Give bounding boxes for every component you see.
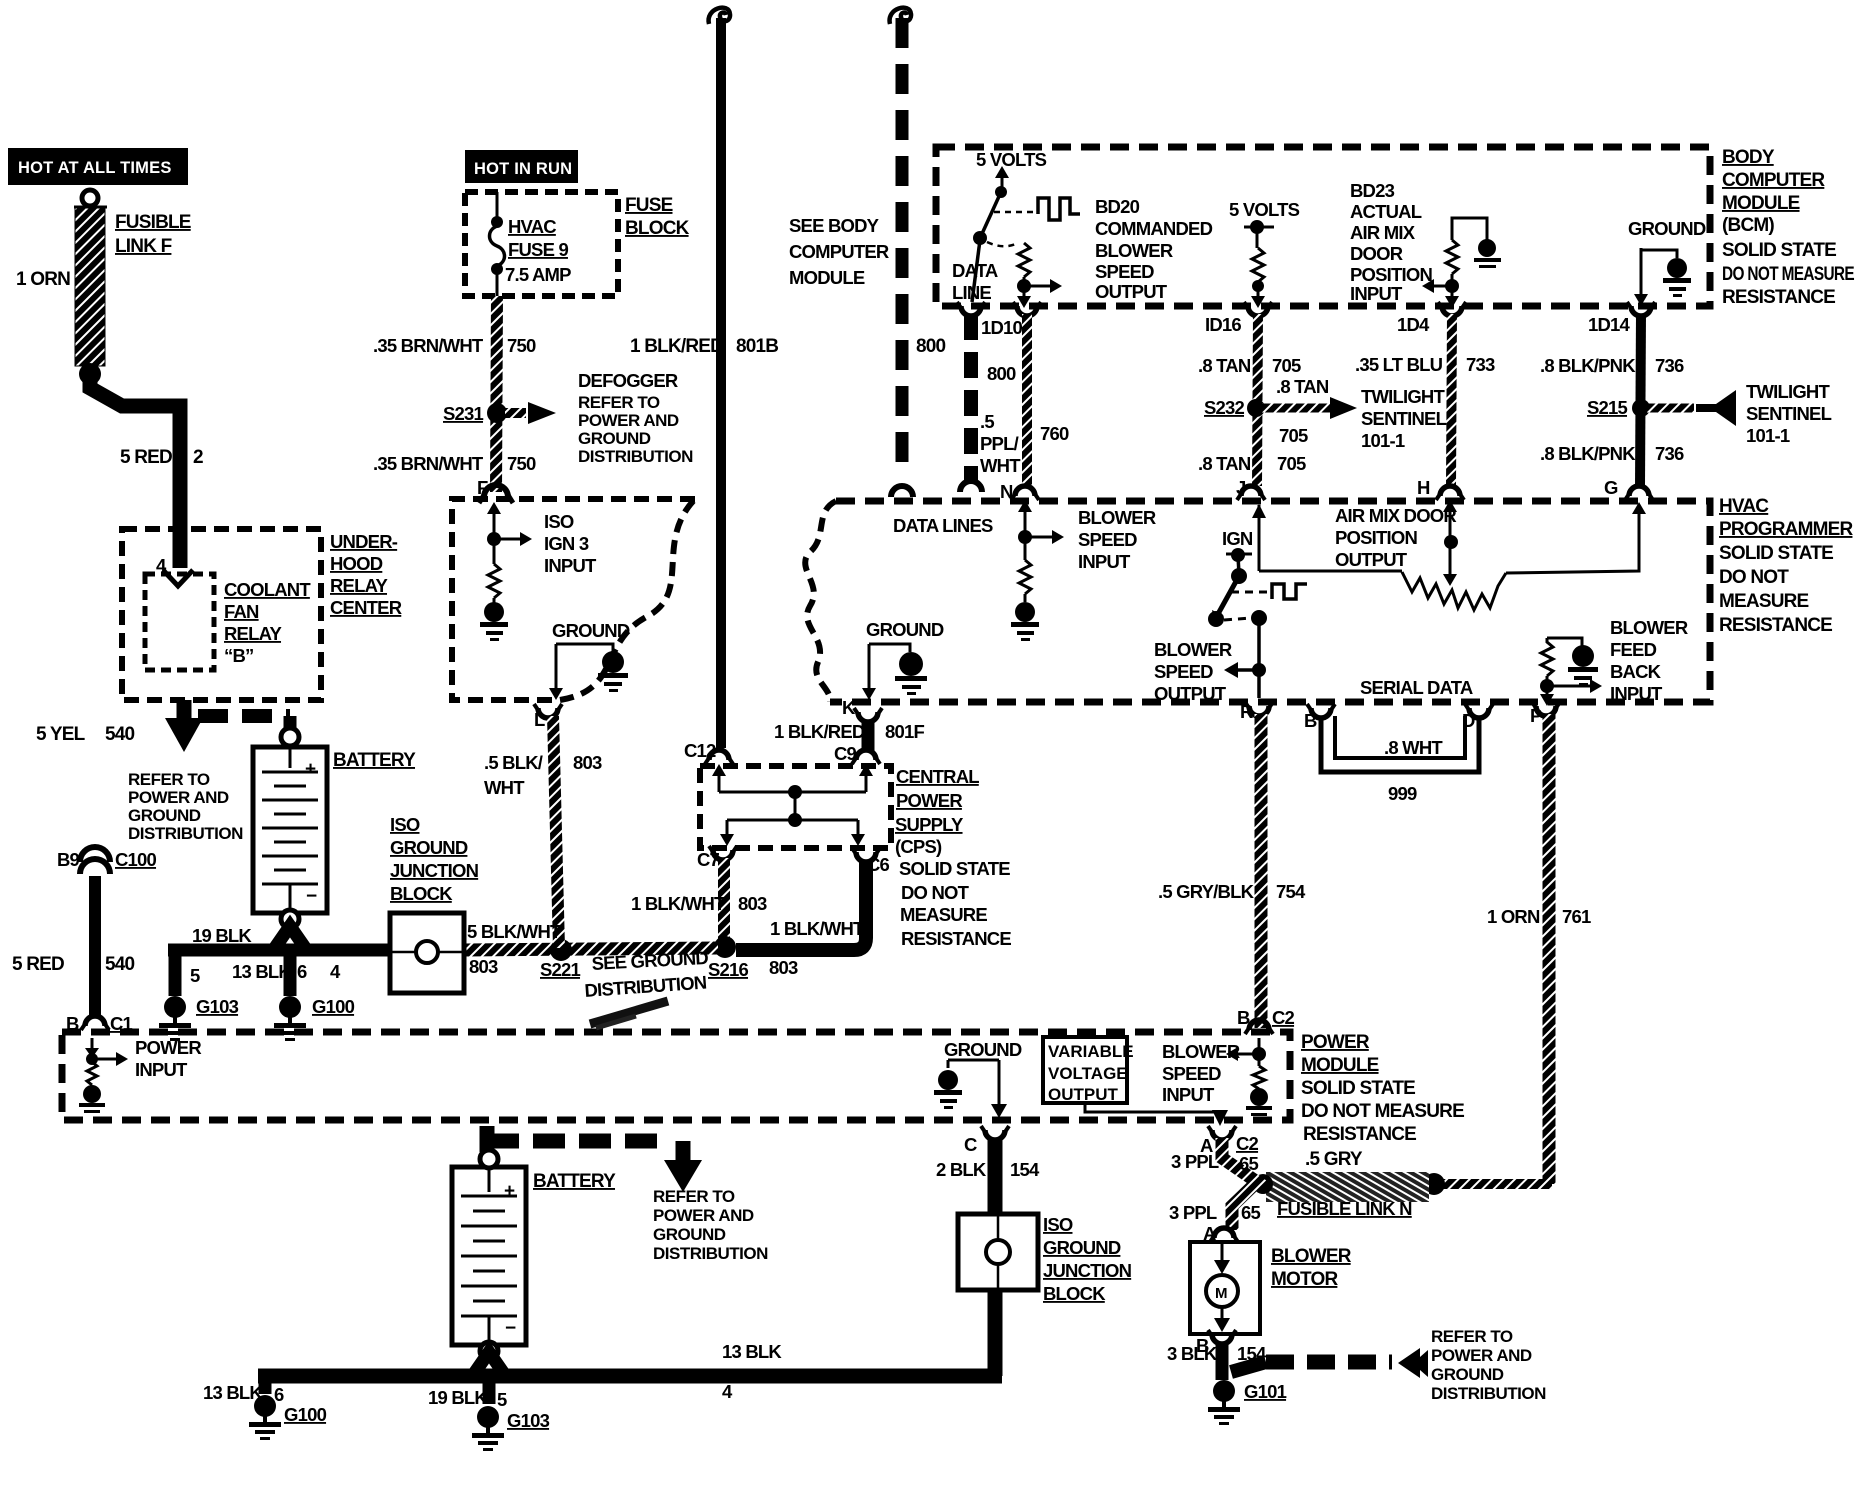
svg-text:705: 705 — [1272, 355, 1301, 376]
svg-text:.8 TAN: .8 TAN — [1198, 355, 1251, 376]
svg-text:RESISTANCE: RESISTANCE — [1722, 287, 1835, 308]
svg-text:RESISTANCE: RESISTANCE — [1303, 1124, 1416, 1145]
svg-text:POSITION: POSITION — [1350, 264, 1432, 285]
svg-text:POWER: POWER — [1301, 1032, 1370, 1053]
svg-text:HOT AT ALL TIMES: HOT AT ALL TIMES — [18, 159, 172, 177]
svg-text:4: 4 — [722, 1381, 733, 1402]
svg-text:BATTERY: BATTERY — [533, 1171, 616, 1192]
svg-text:WHT: WHT — [484, 777, 525, 798]
svg-text:13 BLK: 13 BLK — [232, 961, 292, 982]
svg-text:7.5 AMP: 7.5 AMP — [505, 264, 571, 285]
svg-text:803: 803 — [738, 893, 767, 914]
svg-text:OUTPUT: OUTPUT — [1154, 683, 1227, 704]
svg-text:VOLTAGE: VOLTAGE — [1048, 1064, 1128, 1083]
svg-text:.5 GRY: .5 GRY — [1305, 1149, 1363, 1170]
svg-text:G: G — [1604, 477, 1618, 498]
svg-text:BLOWER: BLOWER — [1610, 617, 1688, 638]
svg-text:INPUT: INPUT — [1350, 283, 1403, 304]
svg-text:AIR MIX DOOR: AIR MIX DOOR — [1335, 505, 1456, 526]
svg-text:BODY: BODY — [1722, 147, 1775, 168]
svg-text:OUTPUT: OUTPUT — [1095, 281, 1168, 302]
svg-text:HVAC: HVAC — [508, 216, 556, 237]
svg-text:R: R — [1240, 701, 1253, 722]
svg-text:760: 760 — [1040, 423, 1069, 444]
svg-text:B: B — [1237, 1007, 1250, 1028]
svg-text:G103: G103 — [507, 1410, 550, 1431]
svg-text:CENTER: CENTER — [330, 597, 402, 618]
svg-text:S215: S215 — [1587, 397, 1628, 418]
svg-text:750: 750 — [507, 453, 536, 474]
svg-text:19 BLK: 19 BLK — [192, 925, 252, 946]
svg-text:SERIAL DATA: SERIAL DATA — [1360, 677, 1473, 698]
svg-text:REFER TO: REFER TO — [1431, 1327, 1513, 1346]
svg-text:540: 540 — [105, 724, 135, 745]
svg-text:6: 6 — [297, 961, 307, 982]
svg-text:P: P — [1530, 705, 1542, 726]
svg-text:“B”: “B” — [224, 645, 253, 666]
svg-text:13 BLK: 13 BLK — [203, 1382, 263, 1403]
svg-text:4: 4 — [330, 961, 341, 982]
svg-text:OUTPUT: OUTPUT — [1335, 549, 1408, 570]
svg-text:INPUT: INPUT — [135, 1059, 188, 1080]
svg-text:101-1: 101-1 — [1746, 425, 1790, 446]
svg-text:DISTRIBUTION: DISTRIBUTION — [578, 447, 693, 466]
svg-text:SENTINEL: SENTINEL — [1746, 403, 1832, 424]
svg-text:999: 999 — [1388, 783, 1417, 804]
svg-text:BATTERY: BATTERY — [333, 750, 416, 771]
svg-text:OUTPUT: OUTPUT — [1048, 1085, 1119, 1104]
svg-text:5: 5 — [190, 965, 200, 986]
svg-text:BLOWER: BLOWER — [1162, 1041, 1240, 1062]
svg-text:SEE BODY: SEE BODY — [789, 215, 880, 236]
svg-text:H: H — [1417, 477, 1430, 498]
svg-text:JUNCTION: JUNCTION — [390, 860, 479, 881]
svg-text:BACK: BACK — [1610, 661, 1662, 682]
svg-text:ID16: ID16 — [1205, 314, 1241, 335]
svg-text:3 PPL: 3 PPL — [1169, 1202, 1217, 1223]
svg-text:G100: G100 — [312, 996, 355, 1017]
svg-text:REFER TO: REFER TO — [128, 770, 210, 789]
svg-text:POWER AND: POWER AND — [1431, 1346, 1532, 1365]
svg-text:801F: 801F — [885, 721, 924, 742]
svg-text:1 ORN: 1 ORN — [1487, 906, 1540, 927]
svg-text:HVAC: HVAC — [1719, 496, 1769, 517]
svg-text:S216: S216 — [708, 959, 749, 980]
svg-text:761: 761 — [1562, 906, 1591, 927]
svg-text:S221: S221 — [540, 959, 581, 980]
svg-text:MODULE: MODULE — [1301, 1055, 1379, 1076]
svg-text:DISTRIBUTION: DISTRIBUTION — [653, 1244, 768, 1263]
svg-text:FUSIBLE LINK N: FUSIBLE LINK N — [1277, 1198, 1412, 1219]
svg-text:3 PPL: 3 PPL — [1171, 1151, 1219, 1172]
svg-text:1D4: 1D4 — [1397, 314, 1430, 335]
svg-text:.35 BRN/WHT: .35 BRN/WHT — [373, 335, 484, 356]
svg-text:C1: C1 — [110, 1013, 133, 1034]
svg-text:TWILIGHT: TWILIGHT — [1746, 381, 1830, 402]
svg-text:C12: C12 — [684, 740, 716, 761]
svg-text:PPL/: PPL/ — [980, 433, 1019, 454]
svg-text:1 BLK/RED: 1 BLK/RED — [630, 336, 723, 357]
svg-text:705: 705 — [1279, 425, 1308, 446]
svg-text:800: 800 — [987, 363, 1016, 384]
svg-text:POWER AND: POWER AND — [128, 788, 229, 807]
svg-text:DO NOT: DO NOT — [1719, 567, 1789, 588]
svg-text:C: C — [964, 1134, 977, 1155]
svg-text:.8 BLK/PNK: .8 BLK/PNK — [1540, 355, 1636, 376]
svg-text:DISTRIBUTION: DISTRIBUTION — [128, 824, 243, 843]
svg-text:803: 803 — [769, 957, 798, 978]
svg-text:SOLID STATE: SOLID STATE — [1722, 240, 1836, 261]
svg-text:.5 BLK/: .5 BLK/ — [484, 752, 543, 773]
svg-text:.8 TAN: .8 TAN — [1276, 376, 1329, 397]
svg-text:DATA LINES: DATA LINES — [893, 515, 993, 536]
svg-text:RESISTANCE: RESISTANCE — [901, 928, 1011, 949]
svg-text:65: 65 — [1241, 1202, 1260, 1223]
svg-text:1 ORN: 1 ORN — [16, 269, 70, 290]
svg-text:K: K — [842, 697, 856, 718]
svg-text:SPEED: SPEED — [1078, 529, 1137, 550]
svg-text:SOLID STATE: SOLID STATE — [899, 858, 1010, 879]
svg-text:A: A — [1203, 1223, 1216, 1244]
svg-text:COMPUTER: COMPUTER — [1722, 170, 1825, 191]
svg-text:BD20: BD20 — [1095, 196, 1140, 217]
svg-text:SENTINEL: SENTINEL — [1361, 408, 1447, 429]
svg-text:800: 800 — [916, 336, 946, 357]
svg-text:FUSE: FUSE — [625, 195, 673, 216]
svg-text:AIR MIX: AIR MIX — [1350, 222, 1416, 243]
svg-text:19 BLK: 19 BLK — [428, 1387, 488, 1408]
svg-text:RELAY: RELAY — [224, 623, 282, 644]
svg-text:CENTRAL: CENTRAL — [896, 766, 979, 787]
svg-text:BLOCK: BLOCK — [1043, 1283, 1106, 1304]
svg-text:803: 803 — [573, 752, 602, 773]
svg-text:INPUT: INPUT — [1078, 551, 1131, 572]
svg-text:+: + — [504, 1181, 515, 1202]
svg-text:GROUND: GROUND — [1431, 1365, 1504, 1384]
svg-text:BLOWER: BLOWER — [1154, 639, 1232, 660]
svg-text:INPUT: INPUT — [1162, 1084, 1215, 1105]
svg-text:GROUND: GROUND — [578, 429, 651, 448]
svg-text:FAN: FAN — [224, 601, 259, 622]
svg-text:F: F — [477, 477, 488, 498]
svg-text:COOLANT: COOLANT — [224, 579, 311, 600]
svg-text:BD23: BD23 — [1350, 180, 1395, 201]
svg-text:3 BLK: 3 BLK — [1167, 1343, 1218, 1364]
svg-text:MEASURE: MEASURE — [900, 904, 987, 925]
svg-text:POWER AND: POWER AND — [653, 1206, 754, 1225]
svg-text:−: − — [306, 886, 317, 907]
svg-text:C2: C2 — [1236, 1133, 1259, 1154]
svg-text:N: N — [1000, 481, 1013, 502]
svg-text:801B: 801B — [736, 336, 778, 357]
svg-text:1 BLK/RED: 1 BLK/RED — [774, 721, 865, 742]
svg-text:DO NOT MEASURE: DO NOT MEASURE — [1301, 1101, 1464, 1122]
svg-text:65: 65 — [1239, 1153, 1258, 1174]
svg-text:13 BLK: 13 BLK — [722, 1341, 782, 1362]
svg-text:WHT: WHT — [980, 455, 1021, 476]
svg-text:GROUND: GROUND — [944, 1039, 1022, 1060]
svg-text:G101: G101 — [1244, 1381, 1287, 1402]
svg-text:DO NOT MEASURE: DO NOT MEASURE — [1722, 264, 1854, 285]
svg-text:RESISTANCE: RESISTANCE — [1719, 615, 1832, 636]
svg-text:5 YEL: 5 YEL — [36, 724, 86, 745]
svg-text:6: 6 — [274, 1384, 284, 1405]
svg-text:.5 GRY/BLK: .5 GRY/BLK — [1158, 881, 1255, 902]
svg-text:BLOWER: BLOWER — [1271, 1246, 1352, 1267]
svg-text:C100: C100 — [115, 849, 157, 870]
svg-text:(BCM): (BCM) — [1722, 215, 1774, 236]
svg-text:UNDER-: UNDER- — [330, 531, 398, 552]
svg-text:DISTRIBUTION: DISTRIBUTION — [1431, 1384, 1546, 1403]
svg-text:B9: B9 — [57, 849, 80, 870]
svg-text:1D14: 1D14 — [1588, 314, 1631, 335]
svg-text:POWER AND: POWER AND — [578, 411, 679, 430]
svg-text:SOLID STATE: SOLID STATE — [1719, 543, 1833, 564]
svg-text:SPEED: SPEED — [1095, 261, 1154, 282]
svg-text:INPUT: INPUT — [1610, 683, 1663, 704]
svg-text:.5: .5 — [980, 411, 994, 432]
svg-text:B: B — [1304, 710, 1317, 731]
svg-text:803: 803 — [469, 956, 498, 977]
svg-text:D: D — [1462, 710, 1475, 731]
svg-text:S231: S231 — [443, 403, 484, 424]
svg-text:REFER TO: REFER TO — [578, 393, 660, 412]
svg-text:COMMANDED: COMMANDED — [1095, 218, 1213, 239]
svg-text:INPUT: INPUT — [544, 555, 597, 576]
svg-text:JUNCTION: JUNCTION — [1043, 1260, 1132, 1281]
svg-text:705: 705 — [1277, 453, 1306, 474]
svg-text:736: 736 — [1655, 355, 1684, 376]
svg-text:C7: C7 — [697, 849, 720, 870]
svg-text:J: J — [1236, 477, 1246, 498]
svg-text:1D10: 1D10 — [981, 317, 1023, 338]
svg-text:G100: G100 — [284, 1404, 327, 1425]
svg-text:BLOWER: BLOWER — [1095, 240, 1173, 261]
svg-text:ACTUAL: ACTUAL — [1350, 201, 1422, 222]
svg-text:.8 BLK/PNK: .8 BLK/PNK — [1540, 443, 1636, 464]
svg-text:C6: C6 — [867, 854, 890, 875]
svg-text:DO NOT: DO NOT — [901, 882, 970, 903]
svg-text:MEASURE: MEASURE — [1719, 591, 1809, 612]
svg-text:TWILIGHT: TWILIGHT — [1361, 386, 1445, 407]
svg-text:ISO: ISO — [544, 511, 574, 532]
svg-text:733: 733 — [1466, 354, 1495, 375]
svg-text:+: + — [305, 759, 316, 780]
svg-text:HOT IN RUN: HOT IN RUN — [474, 160, 572, 178]
svg-text:.8 TAN: .8 TAN — [1198, 453, 1251, 474]
svg-text:GROUND: GROUND — [390, 837, 468, 858]
svg-text:101-1: 101-1 — [1361, 430, 1405, 451]
svg-text:GROUND: GROUND — [128, 806, 201, 825]
svg-text:154: 154 — [1237, 1343, 1267, 1364]
svg-text:S232: S232 — [1204, 397, 1245, 418]
svg-text:5 RED: 5 RED — [12, 954, 64, 975]
svg-text:5 VOLTS: 5 VOLTS — [976, 149, 1047, 170]
svg-text:B: B — [66, 1013, 79, 1034]
svg-text:750: 750 — [507, 335, 536, 356]
svg-text:GROUND: GROUND — [653, 1225, 726, 1244]
svg-text:SOLID STATE: SOLID STATE — [1301, 1078, 1415, 1099]
svg-text:M: M — [1215, 1285, 1228, 1302]
svg-text:POWER: POWER — [135, 1037, 201, 1058]
svg-text:GROUND: GROUND — [866, 619, 944, 640]
svg-text:DOOR: DOOR — [1350, 243, 1403, 264]
svg-text:154: 154 — [1010, 1159, 1040, 1180]
svg-text:GROUND: GROUND — [1043, 1237, 1121, 1258]
svg-text:SUPPLY: SUPPLY — [895, 814, 964, 835]
svg-text:−: − — [505, 1318, 516, 1339]
svg-text:L: L — [534, 709, 545, 730]
svg-text:DATA: DATA — [952, 260, 998, 281]
svg-text:HOOD: HOOD — [330, 553, 383, 574]
svg-text:540: 540 — [105, 954, 135, 975]
svg-text:REFER TO: REFER TO — [653, 1187, 735, 1206]
svg-text:BLOCK: BLOCK — [625, 218, 690, 239]
svg-text:.35 LT BLU: .35 LT BLU — [1355, 354, 1443, 375]
svg-text:BLOWER: BLOWER — [1078, 507, 1156, 528]
svg-text:1 BLK/WHT: 1 BLK/WHT — [770, 918, 865, 939]
svg-text:736: 736 — [1655, 443, 1684, 464]
svg-text:2 BLK: 2 BLK — [936, 1159, 987, 1180]
svg-text:FUSE 9: FUSE 9 — [508, 239, 568, 260]
svg-text:(CPS): (CPS) — [895, 836, 942, 857]
svg-text:POSITION: POSITION — [1335, 527, 1417, 548]
svg-text:SPEED: SPEED — [1162, 1063, 1221, 1084]
svg-text:POWER: POWER — [896, 790, 962, 811]
svg-text:MODULE: MODULE — [1722, 193, 1800, 214]
svg-text:2: 2 — [193, 447, 203, 468]
svg-text:BLOCK: BLOCK — [390, 883, 453, 904]
svg-text:MOTOR: MOTOR — [1271, 1269, 1338, 1290]
svg-text:4: 4 — [156, 555, 167, 576]
svg-text:754: 754 — [1276, 881, 1306, 902]
svg-text:5 VOLTS: 5 VOLTS — [1229, 199, 1300, 220]
svg-text:COMPUTER: COMPUTER — [789, 241, 889, 262]
svg-text:VARIABLE: VARIABLE — [1048, 1042, 1134, 1061]
svg-text:5: 5 — [497, 1389, 507, 1410]
svg-text:FEED: FEED — [1610, 639, 1657, 660]
svg-text:1 BLK/WHT: 1 BLK/WHT — [631, 893, 726, 914]
svg-text:LINK F: LINK F — [115, 236, 172, 257]
svg-text:IGN: IGN — [1222, 528, 1253, 549]
svg-text:C9: C9 — [834, 743, 857, 764]
svg-text:MODULE: MODULE — [789, 267, 865, 288]
svg-text:LINE: LINE — [952, 282, 991, 303]
svg-text:C2: C2 — [1272, 1007, 1295, 1028]
svg-text:GROUND: GROUND — [1628, 218, 1706, 239]
svg-text:FUSIBLE: FUSIBLE — [115, 212, 191, 233]
svg-text:.8 WHT: .8 WHT — [1384, 737, 1443, 758]
svg-text:GROUND: GROUND — [552, 620, 630, 641]
svg-text:ISO: ISO — [1043, 1214, 1073, 1235]
svg-text:.35 BRN/WHT: .35 BRN/WHT — [373, 453, 484, 474]
svg-text:G103: G103 — [196, 996, 239, 1017]
svg-text:5 RED: 5 RED — [120, 447, 172, 468]
svg-text:DEFOGGER: DEFOGGER — [578, 370, 678, 391]
svg-text:PROGRAMMER: PROGRAMMER — [1719, 519, 1854, 540]
svg-text:RELAY: RELAY — [330, 575, 388, 596]
svg-text:5 BLK/WHT: 5 BLK/WHT — [467, 921, 562, 942]
svg-text:ISO: ISO — [390, 814, 420, 835]
svg-text:IGN 3: IGN 3 — [544, 533, 589, 554]
svg-text:SPEED: SPEED — [1154, 661, 1213, 682]
